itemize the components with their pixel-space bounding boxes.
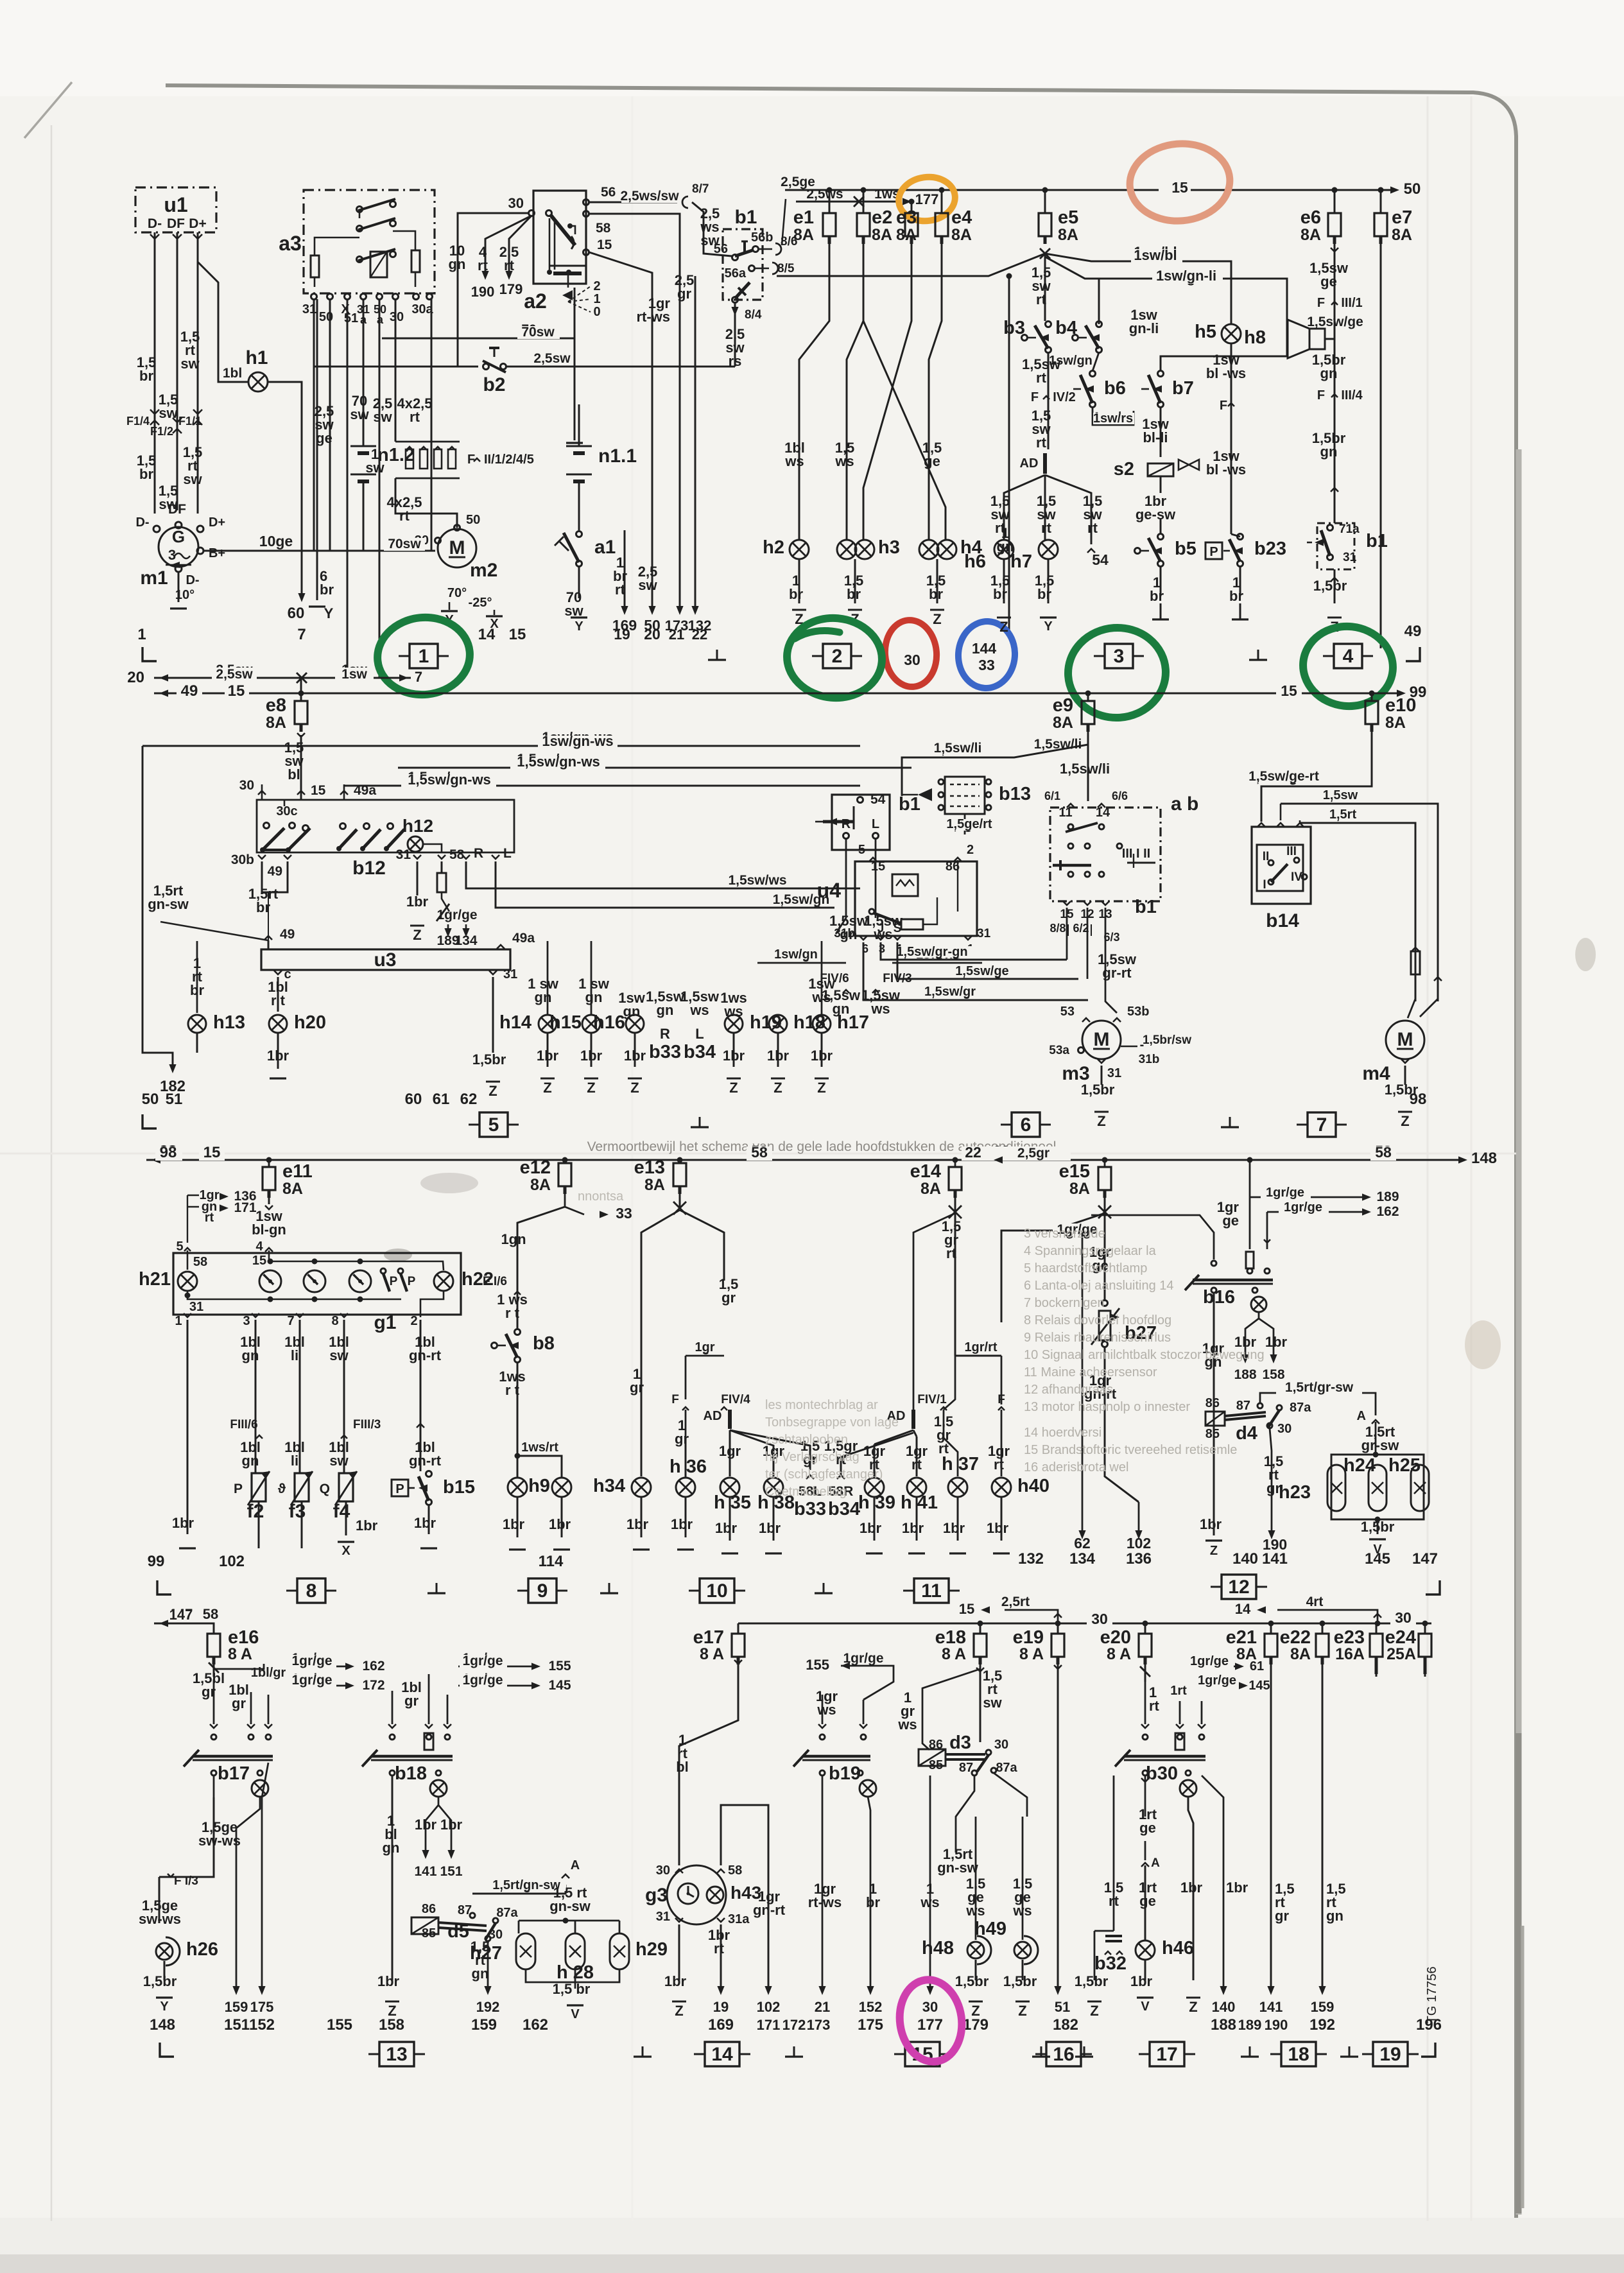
svg-text:P: P bbox=[395, 1482, 404, 1496]
svg-text:AD: AD bbox=[1020, 456, 1039, 471]
section marker 1 bbox=[410, 644, 438, 668]
temp sender f3 bbox=[295, 1473, 309, 1501]
g1 gauges bbox=[259, 1270, 281, 1292]
ab internals bbox=[1068, 824, 1073, 829]
svg-text:Z: Z bbox=[1210, 1544, 1218, 1558]
svg-text:1br: 1br bbox=[356, 1517, 378, 1534]
washer switch b13 bbox=[945, 777, 985, 814]
svg-text:1sw/gn: 1sw/gn bbox=[1049, 354, 1093, 368]
svg-text:2: 2 bbox=[593, 279, 600, 293]
svg-text:ws: ws bbox=[834, 453, 854, 469]
wire 1gr lateral bbox=[686, 1355, 724, 1357]
svg-text:ge: ge bbox=[1139, 1820, 1156, 1836]
svg-text:31: 31 bbox=[503, 967, 517, 981]
wire a3-31 down bbox=[313, 300, 315, 551]
wire 1sw/gn-ws long bbox=[143, 735, 301, 746]
svg-text:P: P bbox=[1209, 545, 1218, 559]
bus row2 main 49 15 bbox=[154, 693, 1399, 695]
svg-text:gr: gr bbox=[232, 1695, 246, 1711]
svg-text:1,5ge/rt: 1,5ge/rt bbox=[946, 817, 992, 831]
svg-text:8 A: 8 A bbox=[1019, 1645, 1044, 1663]
svg-text:141: 141 bbox=[1259, 1999, 1283, 2015]
svg-text:61: 61 bbox=[1250, 1659, 1264, 1673]
resistor under 58 bbox=[441, 861, 443, 873]
svg-text:sw: sw bbox=[373, 409, 392, 425]
svg-text:49: 49 bbox=[1404, 623, 1422, 640]
left vertical to 182 bbox=[143, 746, 173, 1067]
svg-text:D-: D- bbox=[148, 216, 162, 231]
svg-text:1br: 1br bbox=[723, 1048, 745, 1064]
lamp h49 bbox=[1022, 1817, 1024, 1940]
section marker 8 bbox=[297, 1578, 325, 1603]
svg-text:FIV/1: FIV/1 bbox=[917, 1393, 947, 1406]
svg-text:gn: gn bbox=[242, 1453, 259, 1469]
svg-text:53: 53 bbox=[1060, 1005, 1075, 1019]
ground tick row4 f bbox=[1349, 2046, 1351, 2057]
svg-text:h13: h13 bbox=[213, 1012, 245, 1033]
svg-text:n1.1: n1.1 bbox=[598, 445, 637, 467]
svg-text:r t: r t bbox=[505, 1305, 520, 1321]
svg-text:ge: ge bbox=[1320, 273, 1337, 290]
wire column to 62 bbox=[1082, 1231, 1084, 1533]
svg-text:1sw/gn-li: 1sw/gn-li bbox=[1156, 268, 1216, 284]
svg-text:1br: 1br bbox=[715, 1520, 738, 1536]
svg-text:rt: rt bbox=[1041, 520, 1052, 536]
wire a3-50a down to bus bbox=[379, 300, 381, 678]
svg-text:7: 7 bbox=[287, 1314, 294, 1328]
svg-text:8 A: 8 A bbox=[700, 1645, 724, 1663]
svg-text:D-: D- bbox=[186, 573, 199, 587]
page frame top edge bbox=[166, 85, 1516, 2218]
svg-text:25A: 25A bbox=[1386, 1645, 1416, 1663]
svg-text:sw-ws: sw-ws bbox=[198, 1833, 241, 1849]
wire e9 down bbox=[1087, 745, 1089, 801]
wire 1sw/bl to h5 bbox=[777, 254, 1045, 276]
svg-text:33: 33 bbox=[616, 1205, 632, 1222]
wire b12-30b loop bbox=[262, 861, 288, 892]
svg-text:gr: gr bbox=[1275, 1908, 1289, 1924]
svg-text:1br: 1br bbox=[1265, 1334, 1288, 1350]
svg-text:1: 1 bbox=[419, 646, 429, 667]
ground tick row4 b bbox=[793, 2046, 795, 2057]
wire e10 down and left 1,5sw/ge-rt bbox=[1261, 732, 1372, 822]
svg-text:2: 2 bbox=[967, 843, 974, 857]
svg-text:gn: gn bbox=[535, 989, 552, 1005]
svg-text:14: 14 bbox=[478, 626, 496, 643]
svg-text:rt: rt bbox=[410, 409, 420, 425]
svg-text:hij Verlagrschiag: hij Verlagrschiag bbox=[765, 1450, 860, 1464]
svg-text:134: 134 bbox=[1069, 1550, 1096, 1568]
svg-text:e1: e1 bbox=[793, 207, 814, 228]
svg-text:br: br bbox=[929, 586, 943, 602]
svg-text:16 aderisbrota wel: 16 aderisbrota wel bbox=[1024, 1460, 1128, 1474]
svg-text:e4: e4 bbox=[951, 207, 972, 228]
switch b18 bbox=[388, 1724, 396, 1728]
wire a2-30 fan to 10gn 4rt 2,5rt bbox=[458, 213, 529, 367]
license lamps h23 h24 h25 box bbox=[1331, 1455, 1424, 1519]
wire b1 down ground bbox=[1334, 569, 1336, 603]
svg-text:III I II: III I II bbox=[1122, 847, 1150, 861]
svg-text:gn: gn bbox=[657, 1002, 674, 1018]
svg-text:sw: sw bbox=[183, 471, 202, 487]
svg-text:182: 182 bbox=[1053, 2016, 1078, 2034]
svg-text:h1: h1 bbox=[245, 347, 268, 368]
svg-text:1gr: 1gr bbox=[719, 1443, 741, 1459]
svg-text:15: 15 bbox=[959, 1601, 974, 1617]
svg-text:1gr/ge: 1gr/ge bbox=[462, 1673, 503, 1688]
ground tick row4 c bbox=[1041, 2046, 1042, 2057]
svg-text:S: S bbox=[894, 922, 902, 935]
section marker 11 bbox=[914, 1578, 949, 1603]
svg-text:50: 50 bbox=[466, 513, 480, 527]
svg-text:sw: sw bbox=[365, 460, 384, 476]
svg-text:rt: rt bbox=[1087, 520, 1098, 536]
svg-text:11 Maine acheersensor: 11 Maine acheersensor bbox=[1024, 1365, 1157, 1379]
svg-text:h16: h16 bbox=[593, 1012, 625, 1033]
divider row2 bbox=[143, 1114, 157, 1128]
svg-text:147: 147 bbox=[1412, 1550, 1438, 1568]
svg-text:Z: Z bbox=[1097, 1113, 1105, 1129]
svg-text:15: 15 bbox=[1171, 179, 1188, 196]
svg-text:102: 102 bbox=[219, 1553, 245, 1570]
svg-text:zschtaplooben: zschtaplooben bbox=[765, 1433, 848, 1447]
svg-text:gr: gr bbox=[404, 1693, 419, 1709]
svg-text:9: 9 bbox=[537, 1580, 548, 1602]
svg-text:1br: 1br bbox=[759, 1520, 781, 1536]
svg-text:gn-sw: gn-sw bbox=[148, 896, 189, 912]
svg-text:16A: 16A bbox=[1335, 1645, 1365, 1663]
svg-text:b23: b23 bbox=[1254, 539, 1286, 559]
fog relay u3 box bbox=[261, 949, 510, 970]
svg-text:15: 15 bbox=[871, 860, 885, 874]
svg-text:1br: 1br bbox=[580, 1048, 603, 1064]
svg-text:31a: 31a bbox=[728, 1912, 750, 1926]
svg-text:22: 22 bbox=[692, 627, 707, 643]
ground tick row2 b bbox=[1229, 1117, 1231, 1127]
orange annotation circle around 177 bbox=[896, 173, 958, 225]
svg-text:5 haardstofbochtlamp: 5 haardstofbochtlamp bbox=[1024, 1261, 1147, 1275]
svg-text:19: 19 bbox=[614, 626, 630, 643]
svg-text:M: M bbox=[1397, 1029, 1413, 1050]
svg-text:gn: gn bbox=[383, 1840, 400, 1856]
svg-text:189: 189 bbox=[1376, 1189, 1399, 1204]
svg-text:140: 140 bbox=[1212, 1999, 1236, 2015]
resistors above m4 bbox=[1415, 823, 1416, 950]
svg-text:b33: b33 bbox=[794, 1499, 826, 1519]
svg-text:TG 17756: TG 17756 bbox=[1425, 1967, 1439, 2024]
svg-text:1gr/ge: 1gr/ge bbox=[1266, 1186, 1304, 1200]
svg-text:1br: 1br bbox=[987, 1520, 1009, 1536]
wire b7 down 1sw bl-li bbox=[1160, 407, 1162, 457]
svg-text:31: 31 bbox=[1107, 1066, 1121, 1080]
svg-text:172: 172 bbox=[362, 1678, 384, 1693]
svg-text:d4: d4 bbox=[1236, 1423, 1257, 1444]
wiper switch ab box bbox=[1050, 808, 1161, 901]
svg-text:87a: 87a bbox=[1290, 1401, 1311, 1415]
svg-text:b6: b6 bbox=[1104, 378, 1126, 399]
svg-text:14 hoerdversi: 14 hoerdversi bbox=[1024, 1426, 1101, 1440]
svg-text:m1: m1 bbox=[140, 567, 168, 589]
svg-text:30: 30 bbox=[1395, 1609, 1412, 1626]
a2 terminals 56 58 15 bbox=[583, 200, 589, 205]
wire b30 lamp down 1br Z bbox=[1188, 1797, 1193, 1980]
svg-text:br: br bbox=[847, 586, 861, 602]
b30 switch feeds bbox=[1145, 1679, 1146, 1724]
svg-text:3: 3 bbox=[1114, 646, 1125, 667]
green annotation circle 3 bbox=[1065, 625, 1168, 721]
wires 173 132 bbox=[679, 257, 681, 610]
svg-text:50: 50 bbox=[1404, 180, 1421, 198]
svg-text:b1: b1 bbox=[1366, 531, 1388, 551]
svg-text:2,5ws: 2,5ws bbox=[806, 187, 843, 202]
wire b1 8/4 down bbox=[734, 302, 736, 367]
svg-text:70°: 70° bbox=[447, 586, 467, 600]
svg-text:h17: h17 bbox=[837, 1012, 869, 1033]
starter motor m2 bbox=[438, 529, 476, 567]
svg-text:II/1/2/4/5: II/1/2/4/5 bbox=[484, 453, 534, 467]
wire e20 down bbox=[1145, 1664, 1146, 1682]
a2 position labels bbox=[568, 286, 591, 302]
wire 2,5ws 1ws 177 bbox=[796, 201, 902, 203]
double lamp h4 bbox=[919, 540, 938, 559]
svg-text:15: 15 bbox=[597, 238, 612, 252]
section marker 6 bbox=[1012, 1112, 1040, 1137]
svg-text:rt: rt bbox=[946, 1245, 957, 1261]
svg-text:155: 155 bbox=[548, 1659, 571, 1673]
svg-text:1: 1 bbox=[593, 292, 600, 306]
feeder 14 4rt bbox=[1277, 1610, 1378, 1623]
interior lamps h27 h28 h29 bbox=[526, 1920, 566, 1921]
svg-text:58: 58 bbox=[596, 221, 611, 236]
wire u1 D+ to m1 bbox=[197, 232, 199, 514]
svg-text:1,5br/sw: 1,5br/sw bbox=[1143, 1033, 1191, 1047]
wires b17 to 159 175 bbox=[236, 1828, 238, 1989]
svg-text:30: 30 bbox=[656, 1863, 670, 1878]
wire d4-30 down to 190 bbox=[1270, 1428, 1272, 1533]
svg-text:190: 190 bbox=[1265, 2017, 1288, 2033]
svg-text:49: 49 bbox=[280, 927, 295, 942]
svg-text:br: br bbox=[866, 1894, 880, 1910]
terminal 54 bbox=[1087, 549, 1095, 553]
ignition sw a2 box bbox=[533, 191, 586, 284]
svg-text:Z: Z bbox=[1189, 1999, 1197, 2015]
wire b3 down 1,5sw rt bbox=[1048, 352, 1050, 449]
svg-text:159: 159 bbox=[471, 2016, 497, 2034]
wire g3 58 up and over bbox=[721, 1805, 768, 1989]
svg-text:60: 60 bbox=[405, 1091, 422, 1108]
wire e22 down 159 bbox=[1322, 1664, 1324, 1989]
svg-text:1,5br: 1,5br bbox=[143, 1973, 177, 1989]
svg-text:u4: u4 bbox=[817, 879, 842, 902]
svg-text:1,5rt/gr-sw: 1,5rt/gr-sw bbox=[1285, 1380, 1354, 1395]
svg-text:8/5: 8/5 bbox=[777, 262, 795, 275]
a3 internal resistors bbox=[311, 255, 319, 277]
fuse e9 bbox=[1087, 693, 1089, 701]
svg-text:2,5gr: 2,5gr bbox=[1017, 1146, 1050, 1161]
fuse e1 bbox=[823, 213, 836, 236]
ground tick row1 a bbox=[716, 650, 718, 660]
svg-text:h5: h5 bbox=[1195, 322, 1216, 342]
wire e18 down 1,5rt sw bbox=[980, 1664, 981, 1742]
svg-text:1br: 1br bbox=[406, 894, 429, 910]
svg-text:b34: b34 bbox=[828, 1499, 860, 1519]
svg-text:h26: h26 bbox=[186, 1939, 218, 1960]
divider row4 bbox=[160, 2043, 174, 2057]
svg-text:m2: m2 bbox=[470, 560, 497, 581]
right corner row4 bbox=[1421, 2043, 1435, 2057]
svg-text:31: 31 bbox=[189, 1300, 203, 1314]
svg-text:31: 31 bbox=[977, 927, 991, 940]
svg-text:bl -ws: bl -ws bbox=[1206, 462, 1246, 478]
svg-text:Z: Z bbox=[1018, 2003, 1026, 2019]
arrows 136 171 bbox=[187, 1195, 188, 1243]
svg-text:e5: e5 bbox=[1058, 207, 1078, 228]
lamps h9 bbox=[517, 1456, 519, 1478]
wire d5 ground bbox=[392, 1977, 393, 1980]
svg-text:1,5sw/ge-rt: 1,5sw/ge-rt bbox=[1248, 769, 1319, 784]
svg-text:8/7: 8/7 bbox=[692, 182, 709, 196]
svg-text:189: 189 bbox=[1238, 2017, 1262, 2033]
svg-text:sw: sw bbox=[983, 1695, 1002, 1711]
svg-text:1gr/ge: 1gr/ge bbox=[462, 1654, 503, 1668]
heater switch b14 box bbox=[1252, 827, 1311, 904]
svg-text:188: 188 bbox=[1234, 1367, 1256, 1382]
svg-text:159: 159 bbox=[225, 1999, 248, 2015]
svg-text:162: 162 bbox=[1376, 1204, 1399, 1219]
svg-text:b16: b16 bbox=[1203, 1287, 1235, 1308]
svg-text:171: 171 bbox=[757, 2017, 781, 2033]
svg-text:12: 12 bbox=[1228, 1577, 1249, 1598]
ground tick row4 a bbox=[642, 2046, 644, 2057]
svg-text:1br: 1br bbox=[1226, 1880, 1248, 1896]
svg-text:50: 50 bbox=[319, 310, 333, 324]
svg-text:141: 141 bbox=[1262, 1550, 1288, 1568]
svg-text:b14: b14 bbox=[1266, 910, 1299, 931]
fuse e6 bbox=[1334, 190, 1336, 213]
svg-text:1br: 1br bbox=[902, 1520, 924, 1536]
svg-text:Z: Z bbox=[488, 1083, 497, 1099]
svg-text:53a: 53a bbox=[1049, 1044, 1069, 1057]
wire u3-c down to h20 bbox=[274, 971, 282, 974]
svg-text:158: 158 bbox=[1262, 1367, 1284, 1382]
svg-text:1,5 br: 1,5 br bbox=[553, 1981, 591, 1997]
lamp h5 bbox=[1222, 324, 1241, 343]
svg-text:1,5rt: 1,5rt bbox=[1329, 808, 1357, 822]
lamp h46 bbox=[1136, 1940, 1155, 1960]
b17 lamp bbox=[252, 1780, 268, 1797]
wire 1,5rt/gr-sw bbox=[1260, 1393, 1376, 1415]
svg-text:15: 15 bbox=[228, 682, 245, 700]
svg-text:10ge: 10ge bbox=[259, 533, 293, 549]
wire u3-49 from b12 bbox=[268, 940, 270, 949]
lamp h6 bbox=[994, 540, 1014, 559]
battery n1.1 bbox=[566, 445, 592, 447]
svg-text:Z: Z bbox=[773, 1080, 782, 1096]
svg-text:2: 2 bbox=[832, 646, 843, 667]
svg-text:e2: e2 bbox=[872, 207, 892, 228]
paper creases bbox=[1427, 96, 1429, 2221]
svg-text:Z: Z bbox=[933, 611, 941, 627]
svg-text:F I/6: F I/6 bbox=[483, 1275, 507, 1288]
svg-text:1sw/gn-ws: 1sw/gn-ws bbox=[542, 733, 613, 749]
wire g1-2 b15 bbox=[420, 1320, 422, 1367]
b18 below splits bbox=[392, 1776, 393, 1977]
svg-text:nnontsa: nnontsa bbox=[578, 1189, 624, 1204]
svg-text:8 A: 8 A bbox=[228, 1645, 252, 1663]
g1 P P switches bbox=[381, 1268, 386, 1274]
svg-text:f2: f2 bbox=[247, 1501, 264, 1522]
svg-text:Z: Z bbox=[675, 2003, 683, 2019]
svg-text:F: F bbox=[1031, 390, 1039, 404]
lamp h34 bbox=[632, 1478, 651, 1497]
svg-text:3 versnorzude: 3 versnorzude bbox=[1024, 1227, 1105, 1241]
svg-text:h46: h46 bbox=[1162, 1938, 1194, 1958]
svg-text:1,5sw/li: 1,5sw/li bbox=[1060, 761, 1110, 777]
column 1ws to 30 177 bbox=[929, 1776, 931, 1989]
a2 capacitor bbox=[549, 265, 585, 267]
clock g3 bbox=[667, 1865, 726, 1924]
wire b12-49 down to u3 bbox=[274, 892, 275, 937]
svg-text:1,5br: 1,5br bbox=[955, 1973, 989, 1989]
svg-text:31b: 31b bbox=[834, 927, 855, 940]
switch b5 bbox=[1158, 534, 1164, 540]
svg-text:L: L bbox=[872, 817, 879, 831]
svg-text:Y: Y bbox=[324, 605, 334, 621]
svg-text:b17: b17 bbox=[218, 1763, 250, 1784]
svg-text:M: M bbox=[1094, 1029, 1110, 1050]
svg-text:e15: e15 bbox=[1059, 1161, 1090, 1182]
wire a3-30 4x2,5rt bbox=[395, 300, 397, 442]
svg-text:1,5sw/gr: 1,5sw/gr bbox=[924, 985, 976, 999]
feeder 15 2,5rt bbox=[1005, 1610, 1058, 1623]
svg-text:54: 54 bbox=[870, 792, 886, 807]
svg-text:1,5sw/gr-gn: 1,5sw/gr-gn bbox=[896, 945, 967, 959]
svg-text:e12: e12 bbox=[520, 1157, 551, 1178]
svg-text:les montechrblag ar: les montechrblag ar bbox=[765, 1398, 878, 1412]
section marker 2 bbox=[823, 644, 851, 668]
svg-text:53b: 53b bbox=[1127, 1005, 1149, 1019]
svg-text:F1/4: F1/4 bbox=[126, 415, 150, 428]
svg-text:h 39: h 39 bbox=[858, 1492, 895, 1513]
svg-text:FIII/3: FIII/3 bbox=[353, 1418, 381, 1431]
svg-text:1br: 1br bbox=[811, 1048, 833, 1064]
svg-text:19: 19 bbox=[713, 1999, 729, 2015]
svg-text:8/4: 8/4 bbox=[745, 308, 762, 322]
e16 junction fan bbox=[213, 1664, 215, 1677]
svg-text:49a: 49a bbox=[354, 783, 376, 798]
wires ab down to m3 bbox=[1066, 908, 1068, 960]
svg-text:147: 147 bbox=[169, 1607, 193, 1623]
svg-text:1,5sw/li: 1,5sw/li bbox=[1034, 737, 1082, 752]
svg-text:b34: b34 bbox=[684, 1042, 716, 1062]
svg-text:1gr/ge: 1gr/ge bbox=[843, 1651, 883, 1666]
svg-text:98: 98 bbox=[1410, 1091, 1427, 1108]
svg-text:rt-ws: rt-ws bbox=[636, 309, 670, 325]
svg-text:49a: 49a bbox=[512, 931, 535, 946]
fuse e24 bbox=[1424, 1623, 1426, 1634]
svg-text:h48: h48 bbox=[922, 1938, 954, 1958]
svg-text:30: 30 bbox=[1277, 1422, 1291, 1436]
svg-text:1br: 1br bbox=[267, 1048, 289, 1064]
svg-text:15: 15 bbox=[311, 783, 326, 798]
svg-text:rt: rt bbox=[1036, 435, 1047, 451]
wire g1-1 ground 99 bbox=[187, 1320, 189, 1534]
svg-text:e11: e11 bbox=[282, 1161, 313, 1182]
svg-text:h20: h20 bbox=[294, 1012, 326, 1033]
svg-text:2,5sw: 2,5sw bbox=[216, 667, 253, 682]
switch b16 bbox=[1246, 1252, 1254, 1268]
wire a3-50 down 2,5sw ge bbox=[329, 300, 331, 551]
